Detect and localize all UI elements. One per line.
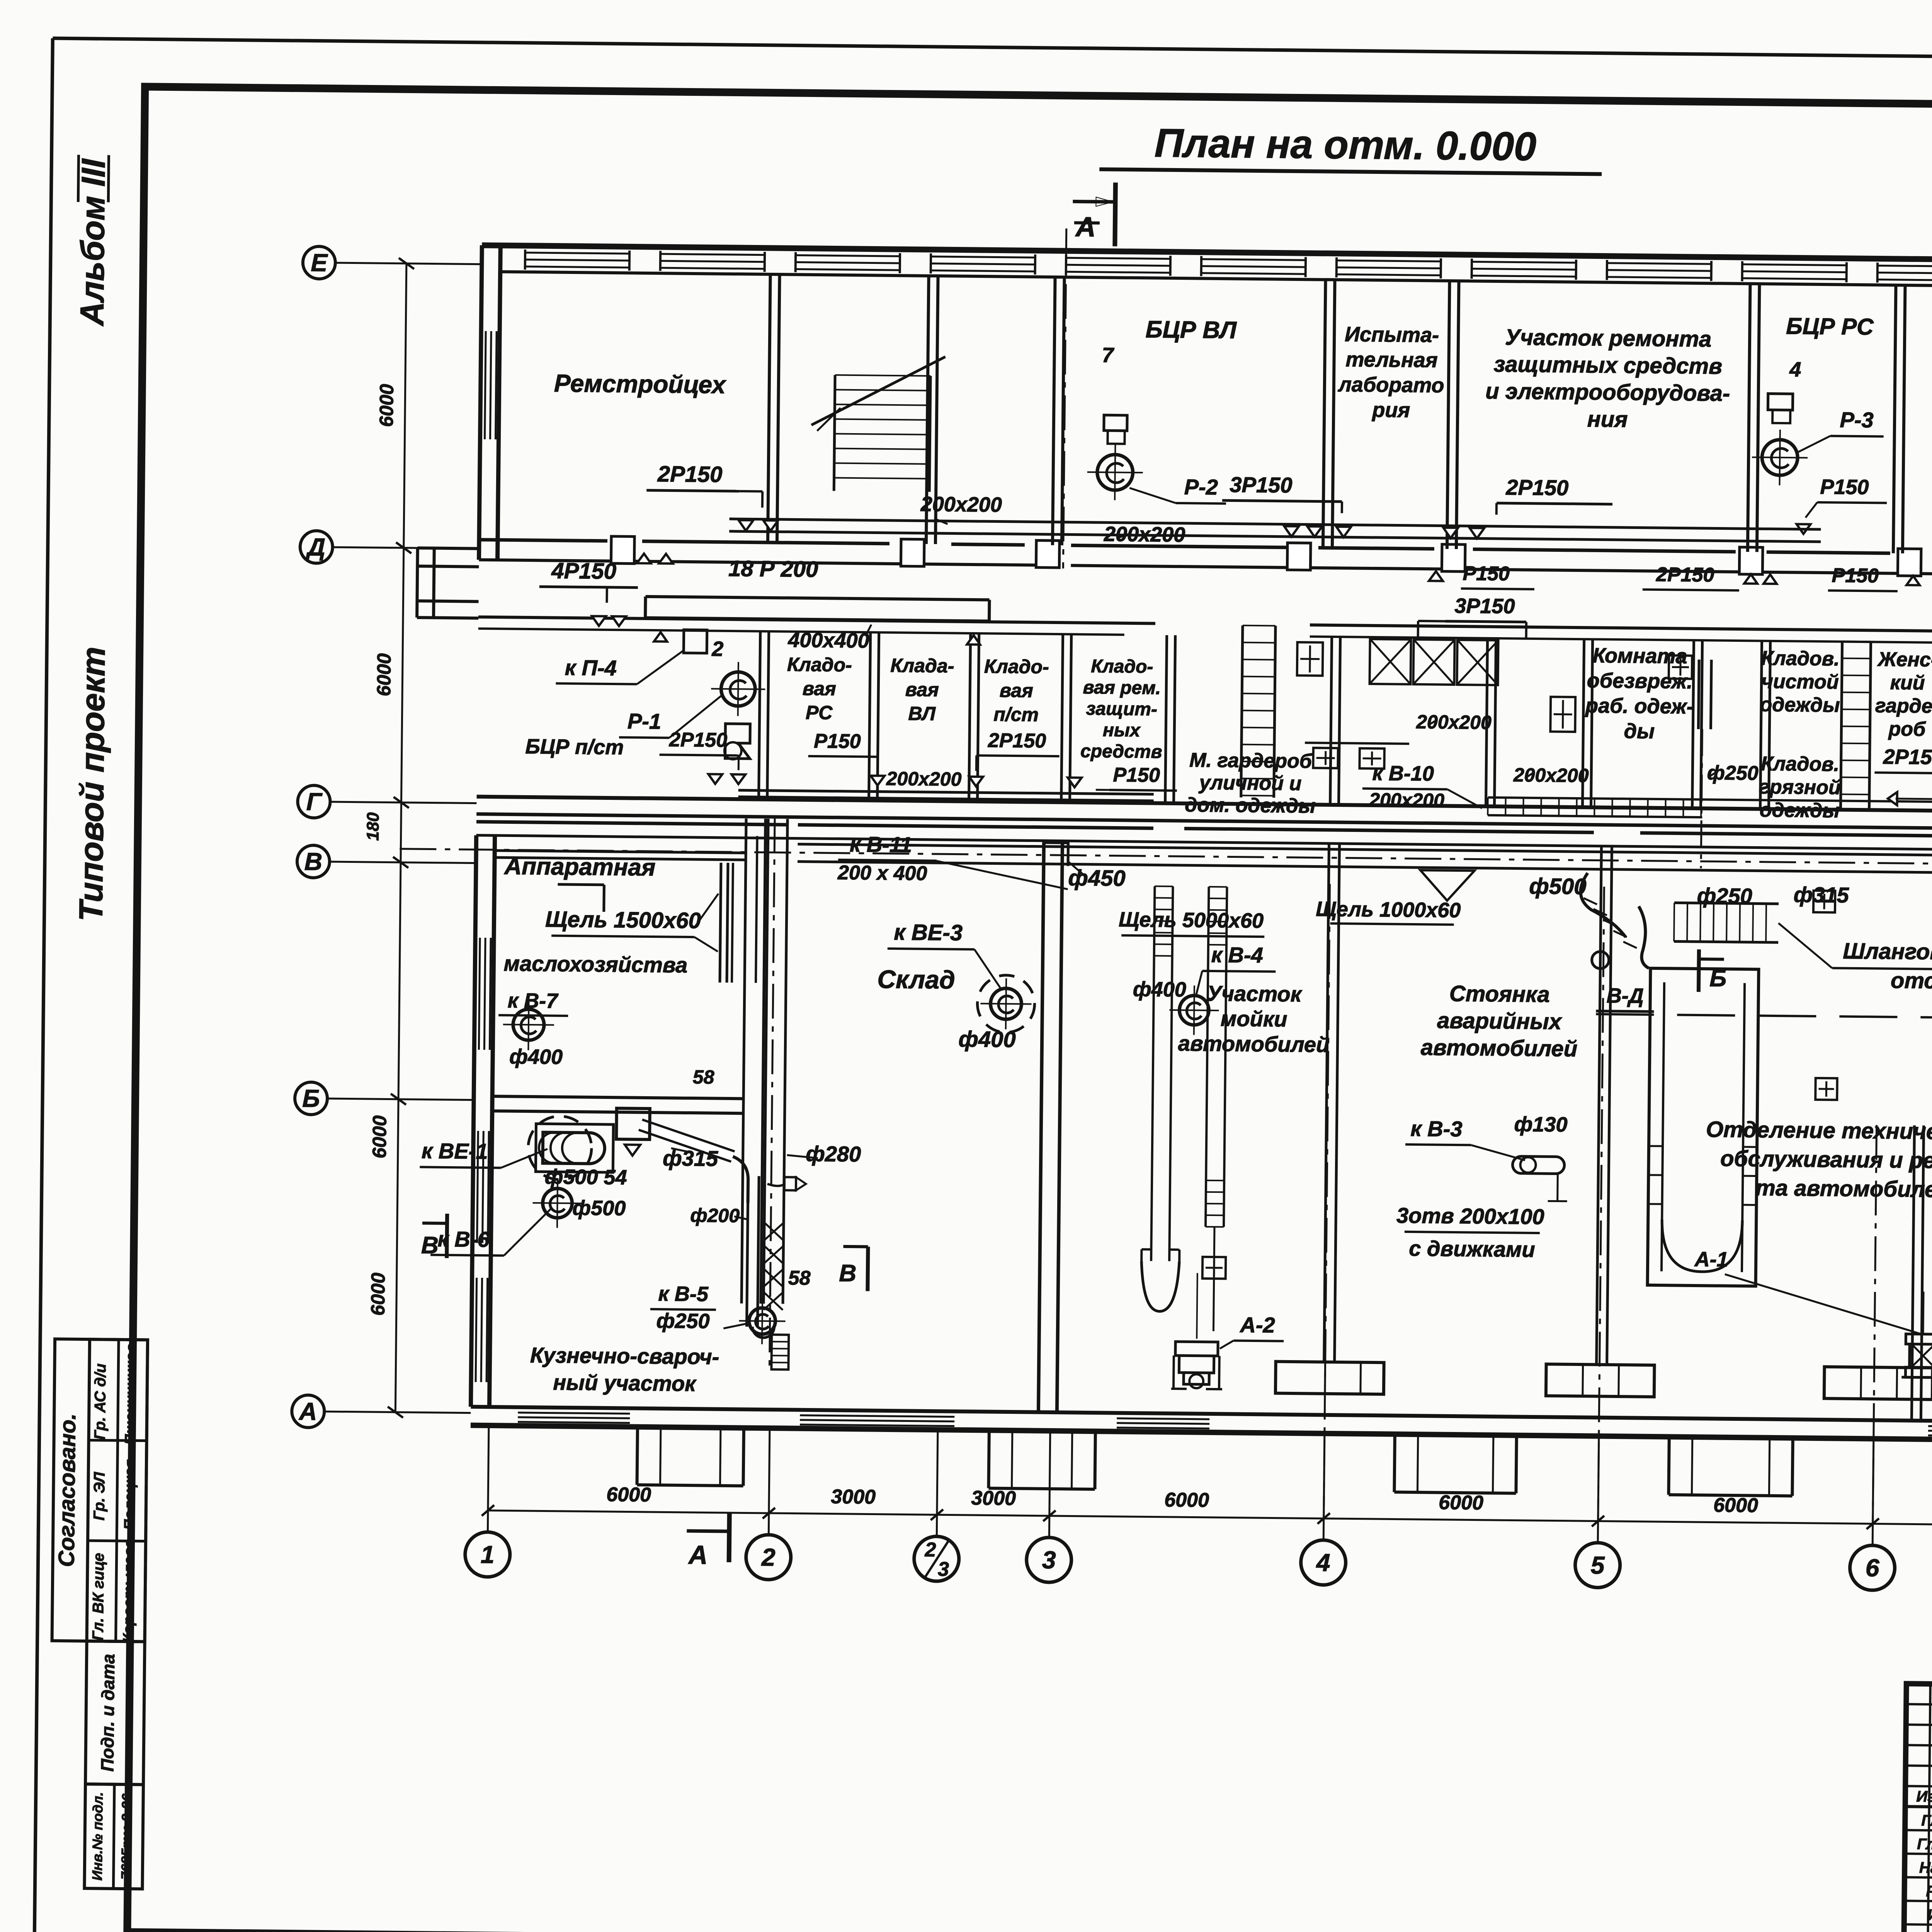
svg-text:и электрооборудова-: и электрооборудова- (1485, 379, 1730, 406)
svg-text:Кузнечно-свароч-: Кузнечно-свароч- (530, 1343, 719, 1369)
svg-text:Б: Б (1709, 965, 1727, 992)
svg-text:4: 4 (1316, 1549, 1330, 1577)
fan к В-7 (513, 1009, 544, 1041)
svg-text:раб. одеж-: раб. одеж- (1585, 694, 1694, 718)
duct 18Р200 (646, 597, 990, 600)
axis 3 (1026, 1537, 1071, 1582)
svg-text:Д: Д (305, 533, 325, 561)
svg-text:к В-10: к В-10 (1372, 762, 1434, 786)
svg-text:2Р150: 2Р150 (669, 728, 728, 751)
svg-text:2Р150: 2Р150 (988, 729, 1046, 752)
fan к ВЕ-3 (977, 975, 1035, 1032)
svg-text:Гл. ВК гице: Гл. ВК гице (90, 1553, 107, 1641)
svg-text:Пшеничников: Пшеничников (122, 1344, 139, 1445)
svg-text:6000: 6000 (606, 1483, 651, 1506)
duct 200x200 top (730, 519, 1821, 529)
svg-text:3000: 3000 (831, 1486, 876, 1509)
main duct 450/500 (798, 844, 1932, 857)
bottom exterior wall (471, 1407, 1932, 1426)
hatch marks on channel (764, 1223, 784, 1240)
svg-text:вая: вая (803, 678, 836, 700)
svg-text:тельная: тельная (1345, 348, 1438, 372)
section А bottom mark (687, 1531, 727, 1531)
svg-text:Склад: Склад (877, 965, 955, 994)
svg-text:В: В (839, 1260, 856, 1287)
svg-text:защит-: защит- (1086, 699, 1158, 720)
svg-text:с движками: с движками (1409, 1236, 1535, 1262)
svg-text:2Р150: 2Р150 (1883, 745, 1932, 769)
svg-text:одежды: одежды (1760, 694, 1840, 717)
column line axis 4 (1324, 844, 1329, 1361)
svg-text:В: В (421, 1232, 439, 1259)
svg-text:ния: ния (1587, 406, 1628, 432)
svg-text:2: 2 (924, 1539, 936, 1561)
vertical dimension line (395, 264, 406, 1412)
axis В (297, 845, 330, 878)
svg-text:БЦР п/ст: БЦР п/ст (525, 735, 624, 759)
svg-text:А-1: А-1 (1694, 1248, 1728, 1271)
fan Р-3 (1768, 394, 1793, 410)
svg-text:3: 3 (1042, 1546, 1056, 1574)
svg-text:защитных средств: защитных средств (1493, 352, 1722, 379)
axis Б (295, 1082, 328, 1115)
svg-text:Р150: Р150 (1463, 562, 1510, 585)
svg-text:6000: 6000 (376, 384, 398, 427)
svg-text:Е: Е (311, 248, 328, 276)
svg-text:ф500: ф500 (572, 1196, 626, 1220)
svg-text:ды: ды (1624, 719, 1655, 743)
svg-text:3отв 200x100: 3отв 200x100 (1396, 1203, 1544, 1229)
row Г wall (477, 797, 1932, 816)
svg-text:6000: 6000 (1439, 1492, 1483, 1514)
svg-text:Ремстройцех: Ремстройцех (554, 369, 727, 399)
svg-text:58: 58 (693, 1066, 714, 1088)
svg-text:вая: вая (1000, 680, 1033, 702)
svg-text:Согласовано.: Согласовано. (54, 1413, 80, 1567)
svg-text:Р-2: Р-2 (1184, 474, 1218, 499)
svg-text:200x200: 200x200 (1513, 764, 1589, 786)
svg-text:Щель 1000x60: Щель 1000x60 (1316, 898, 1461, 922)
svg-text:6000: 6000 (373, 653, 395, 696)
svg-text:та автомобилей: та автомобилей (1755, 1175, 1932, 1202)
svg-text:5: 5 (1591, 1551, 1605, 1579)
mid rooms top wall (478, 617, 1155, 624)
kV-5 riser detail (771, 1335, 789, 1369)
left vestibule protrusion (418, 548, 479, 549)
horizontal dimension line (488, 1510, 1932, 1529)
duct hatch corridor (1488, 798, 1702, 799)
svg-text:200x200: 200x200 (1104, 522, 1185, 546)
mid band partitions (759, 631, 760, 799)
svg-text:200x200: 200x200 (886, 768, 962, 790)
svg-text:2: 2 (761, 1543, 776, 1571)
svg-text:ф280: ф280 (806, 1141, 861, 1166)
svg-text:БЦР РС: БЦР РС (1786, 313, 1874, 340)
svg-text:Рук. гр.: Рук. гр. (1926, 1883, 1932, 1900)
svg-text:к ВЕ-1: к ВЕ-1 (422, 1138, 488, 1163)
divider Аппаратная/Кузнечный (492, 1096, 743, 1099)
fan Р-2 (1104, 415, 1127, 431)
svg-text:Клада-: Клада- (890, 655, 954, 677)
section Б marks (1699, 949, 1699, 992)
svg-text:18 Р 200: 18 Р 200 (728, 556, 818, 582)
svg-text:7: 7 (1102, 344, 1115, 367)
pipe ф315 elbow (640, 1125, 733, 1156)
axis А (292, 1395, 325, 1428)
svg-text:В: В (304, 847, 323, 875)
axis Г (298, 785, 330, 818)
svg-text:маслохозяйства: маслохозяйства (503, 951, 687, 977)
svg-text:6000: 6000 (367, 1272, 389, 1316)
building top exterior wall with windows (482, 245, 1932, 264)
svg-text:3Р150: 3Р150 (1230, 472, 1293, 497)
axis 4 (1301, 1540, 1346, 1585)
svg-text:ф130: ф130 (1514, 1112, 1567, 1136)
svg-text:Провер: Провер (1925, 1930, 1932, 1932)
svg-text:к В-3: к В-3 (1410, 1116, 1463, 1141)
Щель 1500х60 slot (720, 863, 721, 983)
central duct channel (742, 818, 746, 1303)
svg-text:План на отм. 0.000: План на отм. 0.000 (1154, 121, 1536, 169)
ф250 riser dashdot (1701, 729, 1702, 868)
svg-text:Типовой проект: Типовой проект (72, 646, 112, 922)
А-1 hydrant (1905, 1334, 1932, 1378)
svg-text:одежды: одежды (1760, 799, 1840, 822)
axis 5 (1575, 1543, 1620, 1588)
svg-text:М. гардероб: М. гардероб (1189, 749, 1313, 772)
axis 6 (1850, 1545, 1895, 1590)
svg-text:ф400: ф400 (509, 1045, 563, 1069)
svg-text:2Р150: 2Р150 (1656, 563, 1714, 586)
Склад right wall (1038, 841, 1044, 1412)
svg-text:Р150: Р150 (1113, 764, 1160, 786)
pit (1648, 968, 1759, 1286)
svg-text:Г: Г (306, 787, 323, 815)
svg-text:Изм.Лист: Изм.Лист (1916, 1788, 1932, 1806)
wash equipment strips (1154, 886, 1155, 956)
axis 2/3 (914, 1536, 959, 1582)
svg-text:3: 3 (938, 1558, 949, 1580)
svg-text:3Р150: 3Р150 (1454, 594, 1515, 618)
svg-text:к В-11: к В-11 (850, 832, 912, 857)
svg-text:Р-1: Р-1 (628, 709, 662, 733)
svg-text:4: 4 (1789, 358, 1801, 381)
fan к В-5 (749, 1308, 776, 1335)
svg-text:Гр. АС д/и: Гр. АС д/и (92, 1363, 109, 1440)
fan к В-4 (1179, 995, 1209, 1025)
hose suction (1580, 873, 1626, 937)
svg-text:Комната: Комната (1593, 644, 1687, 668)
svg-text:к В-5: к В-5 (658, 1282, 709, 1306)
svg-text:Р-3: Р-3 (1840, 407, 1874, 432)
svg-text:Участок ремонта: Участок ремонта (1505, 325, 1712, 352)
svg-text:Гл. спец.: Гл. спец. (1921, 1812, 1932, 1830)
svg-text:Кладо-: Кладо- (984, 655, 1049, 678)
svg-text:Гр. ЭЛ: Гр. ЭЛ (91, 1471, 108, 1520)
svg-text:обезвреж.: обезвреж. (1587, 669, 1692, 693)
svg-text:кий: кий (1890, 672, 1925, 694)
svg-text:Нач.сект: Нач.сект (1919, 1859, 1932, 1877)
svg-text:п/ст: п/ст (993, 704, 1039, 726)
svg-text:Кладо-: Кладо- (787, 653, 852, 676)
svg-text:к ВЕ-3: к ВЕ-3 (894, 920, 963, 946)
svg-text:Р150: Р150 (814, 730, 861, 753)
svg-text:Шланговый: Шланговый (1843, 939, 1932, 965)
axis 2 (746, 1534, 791, 1580)
row В wall (476, 822, 786, 825)
svg-text:ных: ных (1103, 720, 1141, 741)
svg-text:вая рем.: вая рем. (1083, 677, 1161, 699)
svg-text:6000: 6000 (369, 1115, 391, 1158)
svg-text:к П-4: к П-4 (565, 655, 617, 680)
entrance porches (637, 1427, 638, 1485)
svg-text:Щель 1500x60: Щель 1500x60 (545, 906, 701, 933)
axis 1 (465, 1532, 510, 1577)
svg-text:Аппаратная: Аппаратная (503, 853, 656, 881)
svg-text:БЦР ВЛ: БЦР ВЛ (1145, 316, 1237, 344)
svg-text:Кладов.: Кладов. (1761, 647, 1840, 670)
svg-text:обслуживания и ремон-: обслуживания и ремон- (1720, 1146, 1932, 1174)
capsule к В-3 (1512, 1156, 1564, 1173)
svg-text:Испыта-: Испыта- (1345, 323, 1439, 347)
svg-text:автомобилей: автомобилей (1420, 1035, 1577, 1061)
svg-text:200x200: 200x200 (1416, 711, 1492, 733)
svg-text:6000: 6000 (1164, 1489, 1209, 1512)
svg-text:58: 58 (788, 1267, 810, 1289)
svg-text:Гл.инж.пр: Гл.инж.пр (1917, 1836, 1932, 1854)
plus box markers (1813, 891, 1835, 913)
svg-text:Участок: Участок (1207, 981, 1303, 1006)
svg-text:чистой: чистой (1761, 670, 1839, 694)
svg-text:вая: вая (905, 679, 939, 701)
svg-text:200x200: 200x200 (920, 493, 1002, 517)
top band partitions (768, 274, 770, 543)
svg-text:Щель 5000x60: Щель 5000x60 (1119, 908, 1264, 933)
svg-text:Б: Б (302, 1084, 320, 1112)
svg-text:Стоянка: Стоянка (1449, 981, 1550, 1007)
axis Д (300, 531, 333, 563)
approval stamp table (52, 1339, 148, 1641)
svg-text:2: 2 (711, 637, 724, 660)
svg-text:РС: РС (806, 702, 833, 724)
fan к В-6 (543, 1188, 572, 1218)
section line В-В (769, 817, 775, 1369)
svg-text:2Р150: 2Р150 (1505, 475, 1569, 500)
svg-text:Женс-: Женс- (1877, 648, 1932, 671)
svg-text:к В-4: к В-4 (1211, 942, 1263, 967)
svg-text:А: А (688, 1540, 708, 1570)
svg-text:автомобилей: автомобилей (1178, 1031, 1330, 1057)
svg-text:Кладов.: Кладов. (1761, 753, 1840, 776)
Г symbol box (1045, 843, 1068, 866)
А-2 device (1175, 1342, 1218, 1384)
svg-text:ф200: ф200 (690, 1204, 740, 1226)
svg-text:В-Д: В-Д (1607, 984, 1644, 1008)
svg-text:Отделение технического: Отделение технического (1706, 1117, 1932, 1145)
inventory stamp (85, 1641, 145, 1784)
lower left block walls (471, 835, 476, 1407)
dash line through Отделение (1596, 1014, 1932, 1019)
sheet outer edge (53, 38, 1932, 65)
svg-text:Подп. и дата: Подп. и дата (97, 1654, 118, 1772)
section В marks (447, 1214, 447, 1258)
svg-text:ВЛ: ВЛ (908, 702, 936, 724)
svg-text:лаборато: лаборато (1337, 373, 1444, 397)
section line А vertical (1063, 228, 1066, 568)
svg-text:мойки: мойки (1221, 1006, 1287, 1031)
title block (1904, 1684, 1932, 1932)
duct along bottom of кладовые (738, 790, 1154, 794)
column footing axis 6 (1824, 1367, 1932, 1400)
column line axis 5 (1597, 846, 1602, 1364)
svg-text:Р150: Р150 (1832, 564, 1879, 587)
svg-text:дом. одежды: дом. одежды (1185, 794, 1316, 817)
svg-text:рия: рия (1371, 398, 1410, 422)
svg-text:ф315: ф315 (663, 1146, 718, 1170)
Аппаратная top wall (495, 850, 746, 853)
svg-text:аварийных: аварийных (1437, 1008, 1563, 1034)
svg-text:400x400: 400x400 (787, 628, 869, 652)
wc plus boxes (1297, 642, 1323, 676)
Отделение right wall (1912, 1125, 1914, 1420)
svg-text:Полецкая: Полецкая (121, 1459, 138, 1530)
svg-text:1: 1 (481, 1541, 495, 1568)
svg-text:Р150: Р150 (1820, 475, 1869, 499)
svg-text:4Р150: 4Р150 (551, 558, 616, 584)
left exterior wall (479, 245, 482, 560)
svg-text:отсос: отсос (1891, 968, 1932, 994)
section mark A (top) (1073, 200, 1113, 204)
svg-text:А: А (1075, 211, 1096, 243)
svg-text:6: 6 (1865, 1554, 1879, 1582)
svg-text:200x200: 200x200 (1369, 789, 1444, 811)
svg-text:А-2: А-2 (1239, 1313, 1275, 1337)
stair strip 1 (1241, 626, 1243, 798)
svg-text:средств: средств (1080, 741, 1162, 762)
svg-text:ф250: ф250 (656, 1309, 709, 1333)
svg-text:6000: 6000 (1713, 1494, 1758, 1517)
svg-text:180: 180 (363, 812, 383, 841)
svg-text:ф400: ф400 (1133, 978, 1186, 1001)
svg-text:Инжен.: Инжен. (1927, 1906, 1932, 1924)
svg-text:2Р150: 2Р150 (657, 461, 722, 487)
svg-text:ф400: ф400 (958, 1027, 1016, 1052)
svg-text:А: А (298, 1397, 317, 1425)
svg-text:уличной и: уличной и (1198, 772, 1302, 795)
stairwell left (834, 375, 835, 491)
svg-text:Инв.№ подл.: Инв.№ подл. (89, 1792, 106, 1881)
svg-text:грязной: грязной (1759, 776, 1841, 799)
shower cabins (1370, 639, 1411, 684)
svg-text:3000: 3000 (971, 1487, 1016, 1510)
axis Е (303, 246, 335, 279)
row Д wall (479, 540, 607, 541)
svg-text:гарде-: гарде- (1875, 694, 1932, 718)
grille box (1674, 903, 1779, 904)
svg-text:ный участок: ный участок (553, 1370, 697, 1396)
svg-text:ф315: ф315 (1794, 882, 1849, 907)
svg-text:ф500: ф500 (1529, 874, 1587, 899)
axis 4/5/6 dash-dot (1324, 884, 1330, 1518)
svg-text:200 x 400: 200 x 400 (837, 862, 927, 885)
stair strip 2 (1840, 641, 1842, 810)
svg-text:роб: роб (1888, 718, 1926, 741)
svg-text:Коростылева: Коростылева (121, 1540, 138, 1643)
vertical pipe ф200 (747, 1176, 748, 1327)
svg-text:к В-7: к В-7 (508, 989, 559, 1012)
fan ВЕ-1 assembly (528, 1116, 592, 1180)
svg-text:7685тм-3-26: 7685тм-3-26 (118, 1793, 135, 1880)
svg-text:Кладо-: Кладо- (1091, 656, 1153, 677)
